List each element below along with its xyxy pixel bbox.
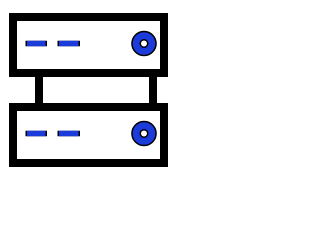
server unit bottom: dash 1 underlay: [26, 131, 48, 137]
server unit bottom: dash 2 underlay: [58, 131, 81, 137]
server unit bottom: indicator donut underlay: [136, 126, 152, 142]
server unit bottom: dash 2: [59, 131, 79, 137]
server unit top: indicator donut underlay: [136, 36, 152, 52]
server unit top: outer rectangle: [13, 17, 164, 73]
rack leg left: [35, 73, 43, 107]
server unit top: indicator donut: [136, 36, 152, 52]
server unit bottom: indicator donut: [136, 126, 152, 142]
server unit top: dash 1: [27, 41, 46, 47]
server unit top: dash 2: [59, 41, 79, 47]
server unit bottom: outer rectangle: [13, 107, 164, 163]
server unit top: dash 2 underlay: [58, 41, 81, 47]
server unit top: dash 1 underlay: [26, 41, 48, 47]
server unit bottom: dash 1: [27, 131, 46, 137]
rack leg right: [149, 73, 157, 107]
